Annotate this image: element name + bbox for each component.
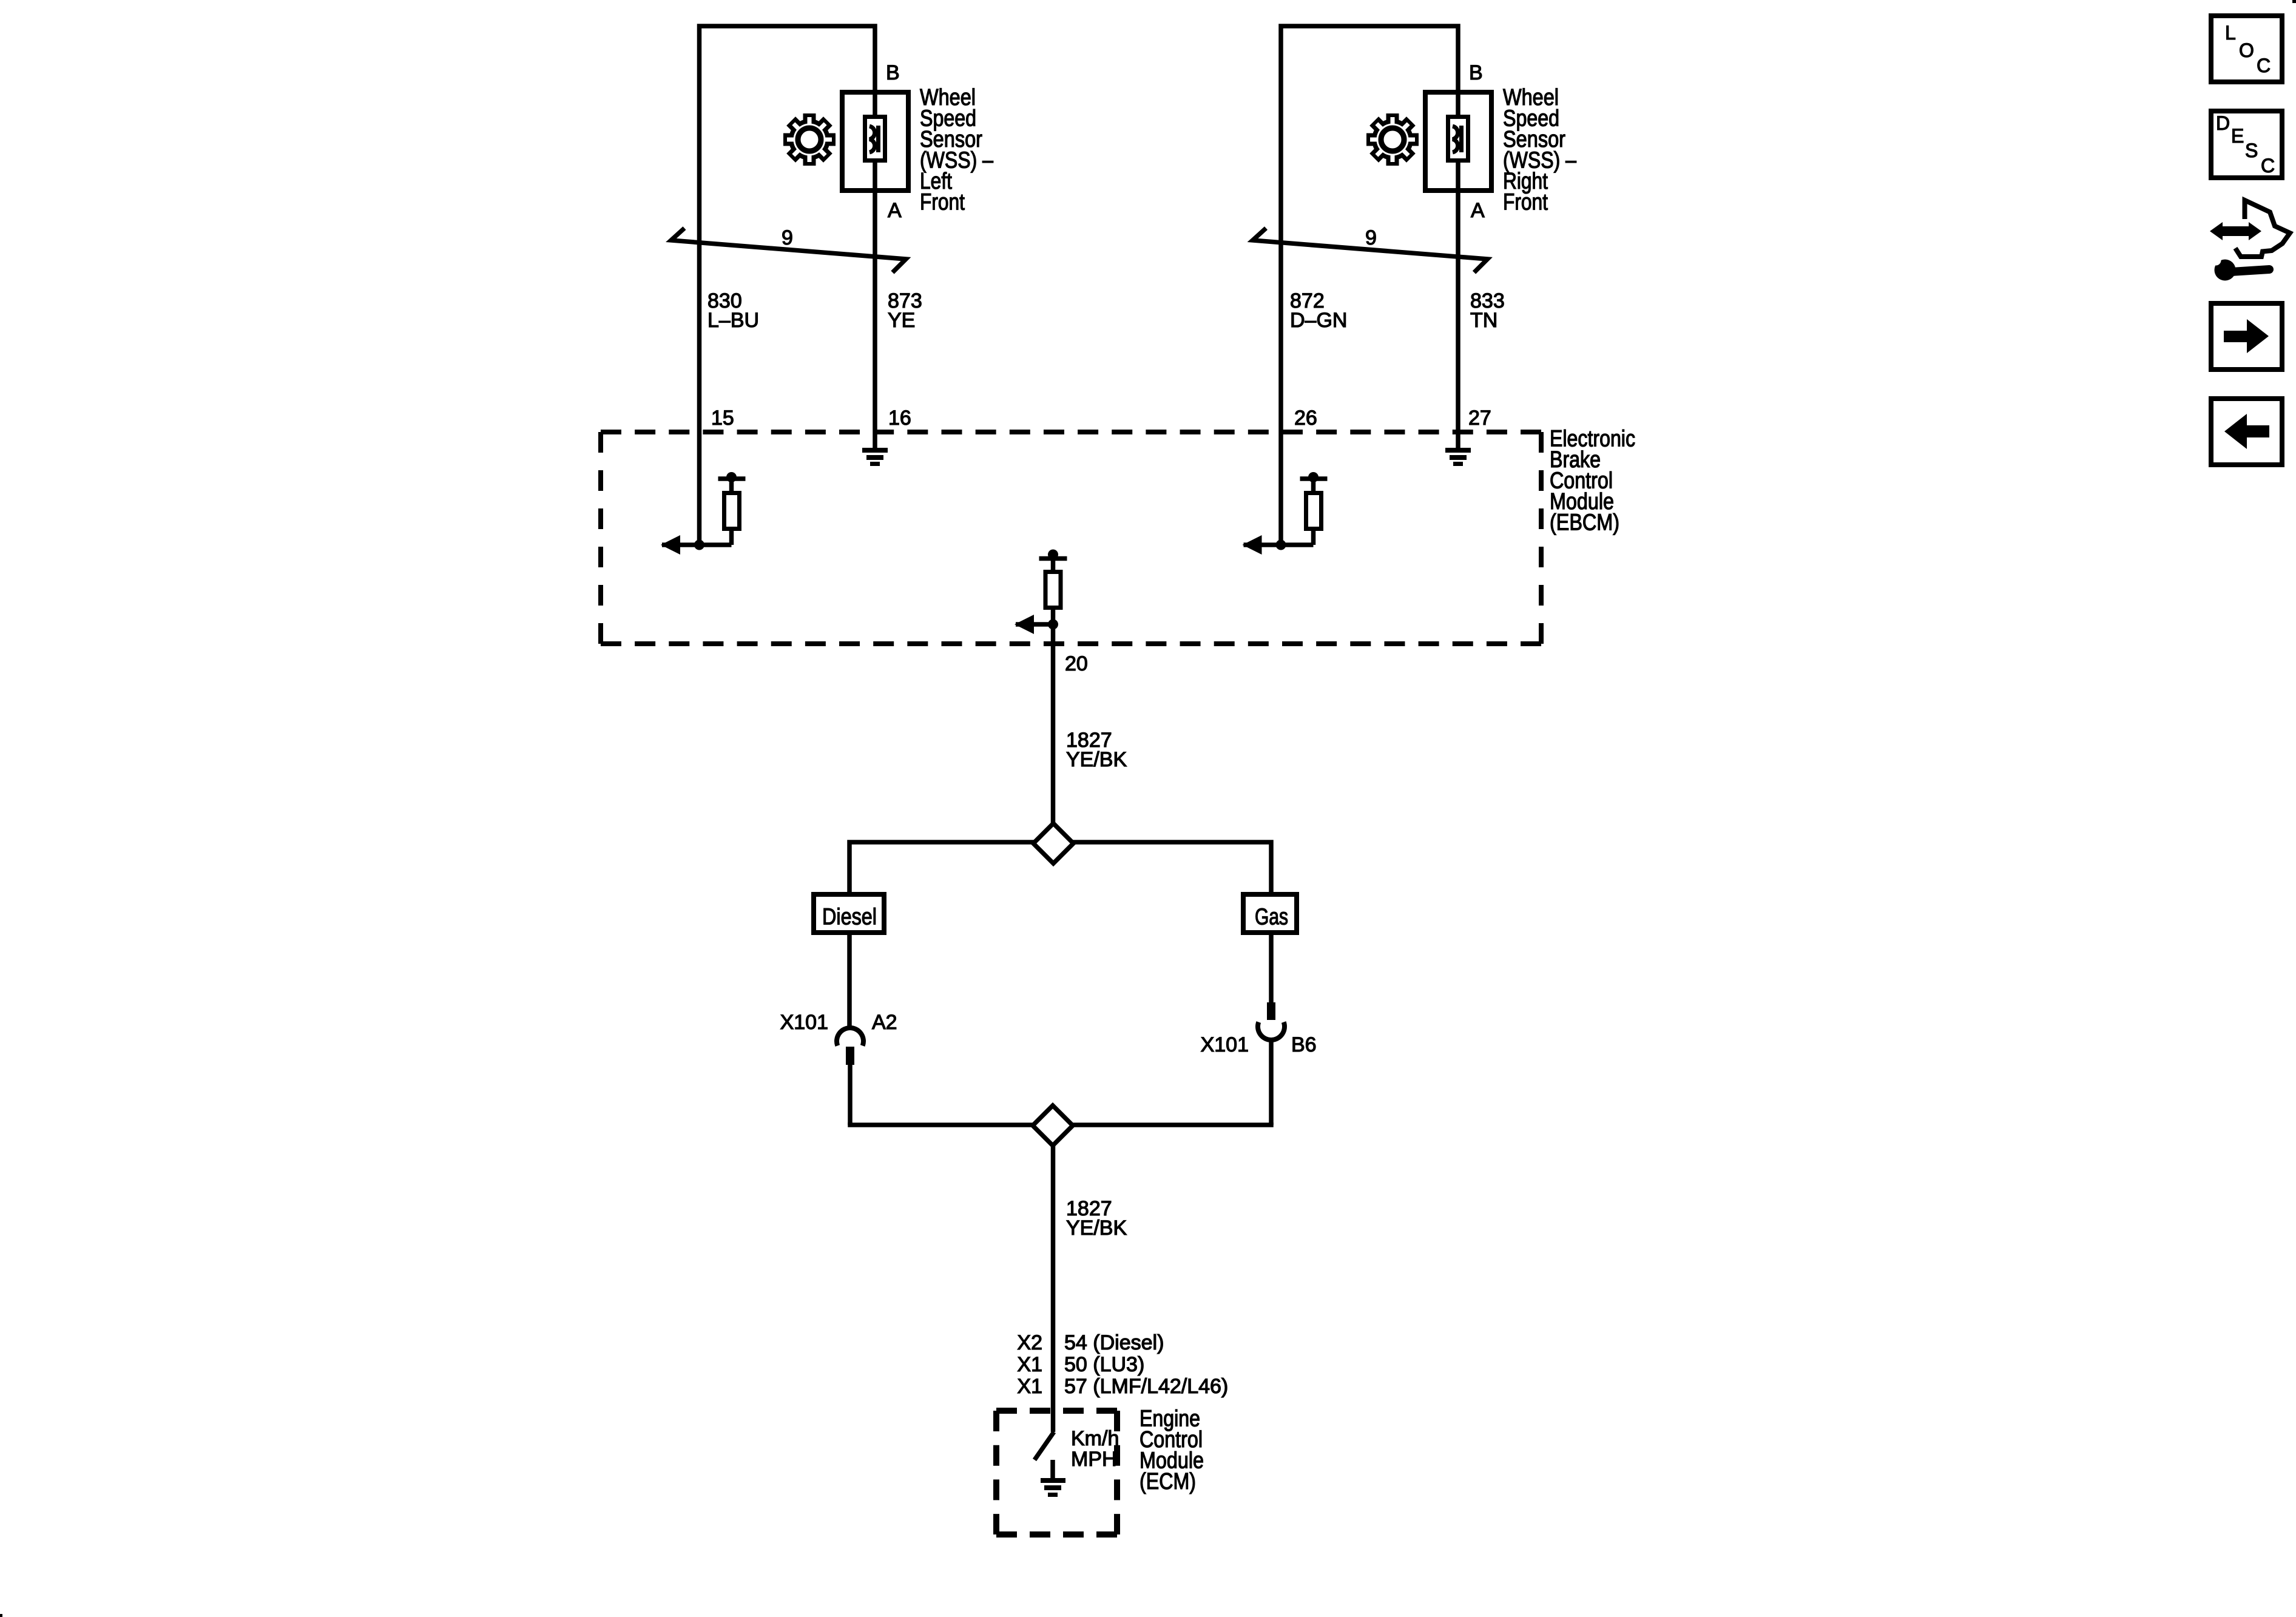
svg-text:Diesel: Diesel xyxy=(822,905,877,930)
svg-text:9: 9 xyxy=(1365,226,1377,249)
svg-text:20: 20 xyxy=(1065,652,1088,675)
svg-text:(ECM): (ECM) xyxy=(1140,1469,1196,1494)
svg-text:TN: TN xyxy=(1470,309,1497,332)
svg-text:26: 26 xyxy=(1294,407,1317,430)
svg-text:X1: X1 xyxy=(1017,1375,1042,1398)
svg-text:Gas: Gas xyxy=(1255,905,1288,930)
svg-text:YE/BK: YE/BK xyxy=(1066,748,1127,771)
svg-text:50 (LU3): 50 (LU3) xyxy=(1064,1353,1144,1376)
svg-text:B: B xyxy=(886,61,900,84)
svg-text:27: 27 xyxy=(1468,407,1491,430)
svg-text:(EBCM): (EBCM) xyxy=(1550,510,1619,536)
svg-text:X101: X101 xyxy=(780,1011,828,1034)
svg-text:Front: Front xyxy=(920,190,965,215)
svg-text:L–BU: L–BU xyxy=(707,309,759,332)
svg-text:C: C xyxy=(2257,55,2271,76)
svg-text:X2: X2 xyxy=(1017,1331,1042,1354)
svg-text:X1: X1 xyxy=(1017,1353,1042,1376)
svg-text:S: S xyxy=(2245,140,2258,161)
svg-text:A2: A2 xyxy=(872,1011,897,1034)
svg-text:MPH: MPH xyxy=(1071,1448,1117,1471)
svg-text:X101: X101 xyxy=(1201,1033,1249,1056)
svg-text:YE/BK: YE/BK xyxy=(1066,1217,1127,1240)
svg-text:L: L xyxy=(2225,22,2236,44)
svg-text:O: O xyxy=(2239,39,2254,61)
svg-text:9: 9 xyxy=(782,226,793,249)
svg-text:Km/h: Km/h xyxy=(1071,1427,1119,1450)
svg-text:E: E xyxy=(2231,125,2244,147)
svg-text:C: C xyxy=(2261,155,2275,177)
svg-text:B: B xyxy=(1469,61,1483,84)
svg-text:YE: YE xyxy=(888,309,915,332)
svg-text:16: 16 xyxy=(888,407,911,430)
svg-text:A: A xyxy=(888,199,902,222)
svg-text:B6: B6 xyxy=(1291,1033,1317,1056)
svg-text:54 (Diesel): 54 (Diesel) xyxy=(1064,1331,1164,1354)
svg-text:Front: Front xyxy=(1503,190,1548,215)
svg-text:A: A xyxy=(1471,199,1485,222)
svg-text:D–GN: D–GN xyxy=(1290,309,1347,332)
svg-text:57 (LMF/L42/L46): 57 (LMF/L42/L46) xyxy=(1064,1375,1228,1398)
svg-text:15: 15 xyxy=(711,407,734,430)
svg-text:D: D xyxy=(2216,112,2230,134)
